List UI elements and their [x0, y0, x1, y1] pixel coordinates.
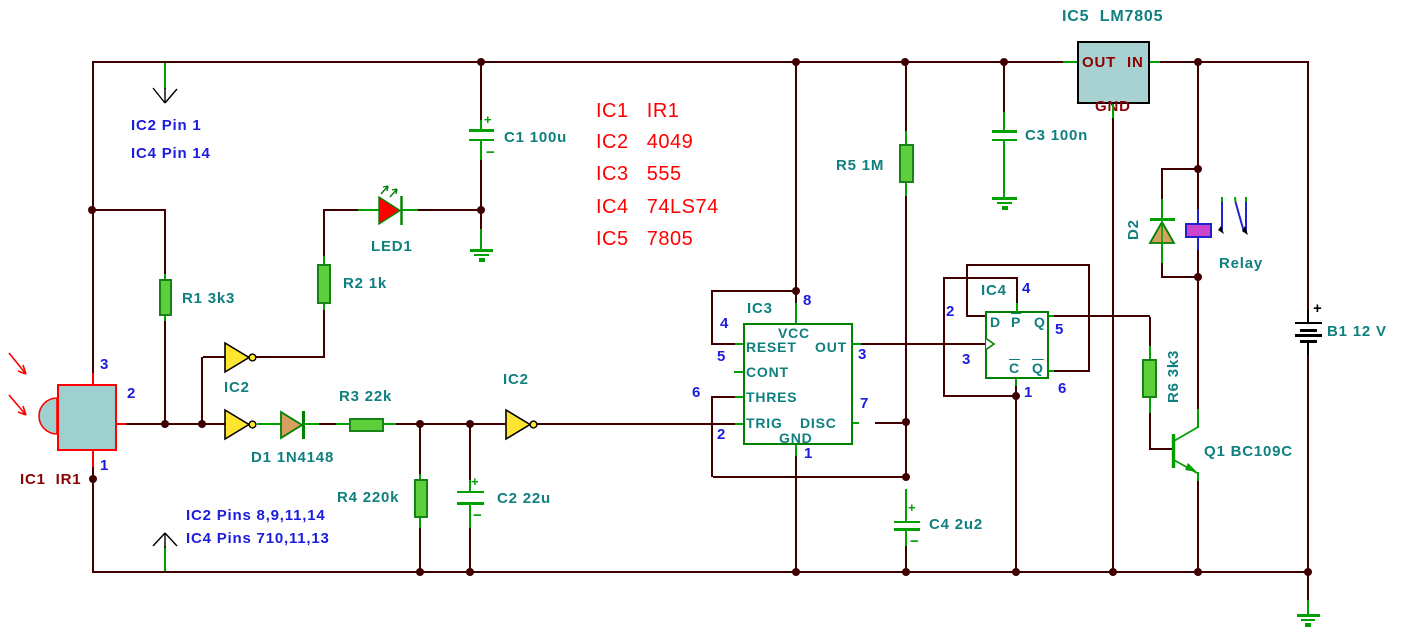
label D input	[990, 315, 1001, 329]
polarity C1 plus	[484, 112, 492, 127]
label IC2 third inverter	[503, 372, 529, 387]
node LED / C1 junction	[477, 206, 485, 214]
label list IC4 74LS74	[596, 197, 719, 217]
pin regulator IN stub	[1150, 61, 1160, 63]
wire C1 top lead from rail	[480, 63, 482, 120]
node C3 top rail junction	[1000, 58, 1008, 66]
label C clear	[1009, 361, 1020, 375]
component IC1 IR receiver body	[57, 384, 117, 451]
wire relay branch from top rail	[1197, 63, 1199, 170]
wire C1 node down to ground symbol	[480, 211, 482, 229]
node C2 ground rail junction	[466, 568, 474, 576]
label C3 100n	[1025, 128, 1088, 143]
node relay branch top rail junction	[1194, 58, 1202, 66]
wire R2 top lead up to LED row	[323, 256, 325, 264]
capacitor C3 plates	[992, 130, 1017, 133]
label IC4 Pins 710,11,13	[186, 531, 330, 546]
wire LED1 anode lead	[324, 209, 358, 211]
label LED1	[371, 239, 413, 254]
node VCC reset loop junction	[792, 287, 800, 295]
label C4 2u2	[929, 517, 983, 532]
wire Q output to R6	[1049, 315, 1054, 317]
pin label 1	[804, 446, 813, 461]
wire battery bottom lead	[1307, 343, 1309, 355]
node C2 junction	[466, 420, 474, 428]
wire supply arrow stem top	[164, 63, 166, 89]
label B1 12 V	[1327, 324, 1387, 339]
label CONT	[746, 365, 789, 379]
label IC3	[747, 301, 773, 316]
battery B1 plates	[1295, 322, 1322, 324]
wire top supply rail left segment	[92, 61, 1063, 63]
wire R1 bottom lead	[164, 316, 166, 321]
inverter IC2c	[506, 410, 537, 439]
diode D2	[1150, 211, 1175, 243]
wire C2 bottom lead	[469, 505, 471, 528]
pin CONT stub	[734, 371, 743, 373]
label D1 1N4148	[251, 450, 334, 465]
arrow IR ray 2	[9, 395, 26, 415]
wire IC3 GND pin to ground rail	[795, 445, 797, 456]
wire Q1 collector up to relay node	[1197, 278, 1199, 409]
wire THRES loop to C4 node	[735, 396, 743, 398]
wire inverter2 output to D1 anode	[257, 423, 281, 425]
wire D1 cathode to R3	[305, 423, 319, 425]
pin label 4	[720, 316, 729, 331]
wire R3 to inverter3 input	[384, 423, 396, 425]
wire left rail to R1 branch	[92, 209, 166, 211]
pin label 2	[127, 386, 136, 401]
pin label 3	[100, 357, 109, 372]
capacitor C4 plates	[894, 521, 920, 523]
arrow ground up at IC2 Pins	[153, 533, 177, 548]
label IC2 Pins 8,9,11,14	[186, 508, 325, 523]
label DISC	[800, 416, 837, 430]
arrow IR ray 1	[9, 353, 26, 374]
polarity C4 minus	[910, 534, 920, 549]
pin label 5	[1055, 322, 1064, 337]
label R5 1M	[836, 158, 884, 173]
wire R1 top lead	[164, 209, 166, 274]
node relay bottom junction	[1194, 273, 1202, 281]
label OUT regulator	[1082, 55, 1116, 70]
relay coil	[1185, 223, 1212, 238]
wire R5 bottom lead down to C4 node	[905, 183, 907, 196]
wire R6 bottom to Q1 base	[1149, 398, 1151, 413]
node R4 ground rail junction	[416, 568, 424, 576]
arrow supply down at IC2 Pin1	[153, 88, 177, 103]
label Q output	[1034, 315, 1046, 329]
label OUT	[815, 340, 847, 354]
wire R4 top lead	[419, 425, 421, 474]
wire IC3 DISC to R5 line	[853, 422, 859, 424]
label GND	[779, 431, 813, 445]
wire top inverter output to R2	[256, 356, 325, 358]
wire C3 branch from top rail	[1003, 63, 1005, 112]
wire battery branch from top rail	[1307, 63, 1309, 310]
pin label 7	[860, 396, 869, 411]
pin label 4	[1022, 281, 1031, 296]
wire regulator GND to ground rail	[1112, 104, 1114, 118]
label Relay	[1219, 256, 1263, 271]
wire RESET loop	[711, 290, 796, 292]
wire R5 branch from top rail	[905, 63, 907, 131]
wire relay coil bottom lead	[1197, 238, 1199, 250]
label IC4	[981, 283, 1007, 298]
pin label 2	[946, 304, 955, 319]
label Qbar output	[1032, 361, 1044, 375]
label IC5 LM7805	[1062, 9, 1163, 24]
wire ground arrow stem bottom	[164, 546, 166, 571]
node R5 top rail junction	[901, 58, 909, 66]
node IC4 ground rail junction	[1012, 568, 1020, 576]
node junction left rail to R1	[88, 206, 96, 214]
ground symbol below C3	[992, 197, 1017, 200]
transistor Q1	[1174, 427, 1199, 473]
node preset clear junction	[1012, 392, 1020, 400]
wire LED1 cathode lead to C1 node	[402, 209, 418, 211]
ground symbol below C1	[470, 249, 493, 252]
label IC2 top inverter	[224, 380, 250, 395]
wire C3 bottom lead	[1003, 141, 1005, 197]
node IC1 pin 1	[89, 475, 97, 483]
node inverter riser junction	[198, 420, 206, 428]
wire C1 bottom lead to LED node	[480, 141, 482, 160]
label Q1 BC109C	[1204, 444, 1293, 459]
wire bottom ground rail	[92, 571, 1309, 573]
node C1 top rail junction	[477, 58, 485, 66]
label list IC1 IR1	[596, 101, 679, 121]
polarity C2 plus	[471, 474, 479, 489]
pin label 6	[1058, 381, 1067, 396]
component IC1 dome lens	[39, 398, 57, 434]
clock input arrow IC4 pin3	[986, 339, 994, 350]
resistor R1	[159, 279, 172, 316]
pin label 1	[100, 458, 109, 473]
wire C pin to ground rail	[1015, 379, 1017, 386]
label D2	[1126, 219, 1141, 240]
node IC3 GND rail junction	[792, 568, 800, 576]
wire R4 bottom lead	[419, 518, 421, 528]
wire C2 top lead	[469, 425, 471, 480]
label R4 220k	[337, 490, 399, 505]
wire preset clear loop	[1016, 303, 1018, 311]
pin label 8	[803, 293, 812, 308]
label R2 1k	[343, 276, 387, 291]
pin IC1 pin 3 lead	[92, 373, 94, 384]
IC3 555 body	[743, 323, 853, 445]
wire ground stub bottom right	[1307, 573, 1309, 600]
inverter IC2b	[225, 410, 256, 439]
wire IC3 OUT to IC4 clock	[853, 343, 861, 345]
pin label 2	[717, 427, 726, 442]
label IC2 Pin 1	[131, 118, 202, 133]
label THRES	[746, 390, 797, 404]
polarity C2 minus	[473, 508, 483, 523]
polarity battery plus	[1313, 301, 1323, 316]
pin IC1 pin 2 lead	[117, 423, 126, 425]
wire top supply rail right segment	[1160, 61, 1309, 63]
pin label 5	[717, 349, 726, 364]
node top rail VCC junction	[792, 58, 800, 66]
polarity C4 plus	[908, 500, 916, 515]
inverter IC2a	[225, 343, 256, 372]
relay contact poles	[1218, 197, 1248, 235]
label IC4 Pin 14	[131, 146, 211, 161]
label P preset	[1011, 315, 1021, 329]
wire signal row IC1 pin2 to inverter input	[126, 423, 225, 425]
wire inverter3 output to IC3 TRIG	[537, 423, 735, 425]
pin label 3	[962, 352, 971, 367]
node regulator GND rail junction	[1109, 568, 1117, 576]
wire IC3 VCC from top rail	[795, 63, 797, 303]
label VCC	[778, 326, 810, 340]
diode D1	[281, 411, 304, 439]
IC5 regulator body	[1077, 41, 1150, 104]
pin IC1 pin 1 lead	[92, 451, 94, 467]
label RESET	[746, 340, 797, 354]
label list IC2 4049	[596, 132, 693, 152]
node C4 top junction	[902, 473, 910, 481]
wire D2 top loop	[1162, 168, 1198, 170]
label C2 22u	[497, 491, 551, 506]
label IN regulator	[1127, 55, 1144, 70]
wire IC1 pin1 down to ground rail	[92, 467, 94, 573]
capacitor C1 plates	[469, 129, 494, 132]
label IC1 IR1	[20, 472, 81, 487]
polarity C1 minus	[486, 145, 496, 160]
wire C4 bottom lead	[905, 531, 907, 546]
wire Q1 emitter down to ground rail	[1197, 472, 1199, 481]
node C4 ground rail junction	[902, 568, 910, 576]
IC4 74LS74 body	[985, 311, 1049, 379]
pin label 6	[692, 385, 701, 400]
pin label 3	[858, 347, 867, 362]
pin label 1	[1024, 385, 1033, 400]
label list IC3 555	[596, 164, 682, 184]
node R4 junction	[416, 420, 424, 428]
node battery ground rail junction	[1304, 568, 1312, 576]
resistor R2	[317, 264, 331, 304]
wire relay coil top lead	[1197, 170, 1199, 209]
node DISC junction	[902, 418, 910, 426]
resistor R3	[349, 418, 384, 432]
wire riser to top inverter input	[201, 357, 203, 424]
pin regulator OUT stub	[1063, 61, 1077, 63]
label TRIG	[746, 416, 783, 430]
label GND regulator	[1095, 99, 1131, 114]
wire left rail to IC1 pin 3	[92, 61, 94, 373]
resistor R4	[414, 479, 428, 518]
resistor R6	[1142, 359, 1157, 398]
wire D2 bottom loop	[1161, 243, 1163, 263]
label C1 100u	[504, 130, 567, 145]
label R3 22k	[339, 389, 392, 404]
node R1 junction on signal row	[161, 420, 169, 428]
wire Qbar to D feedback loop	[967, 315, 985, 317]
capacitor C2 plates	[457, 491, 484, 493]
LED LED1	[379, 186, 402, 225]
resistor R5	[899, 144, 914, 183]
label list IC5 7805	[596, 229, 693, 249]
wire C4 top lead	[905, 489, 907, 521]
node Q1 emitter rail junction	[1194, 568, 1202, 576]
node relay top junction	[1194, 165, 1202, 173]
label R6 3k3	[1166, 350, 1181, 403]
ground symbol bottom right	[1297, 614, 1320, 617]
label R1 3k3	[182, 291, 235, 306]
